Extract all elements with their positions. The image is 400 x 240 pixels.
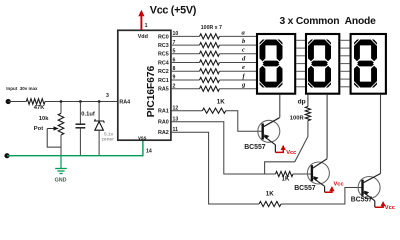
wire pot to ground bus: [60, 135, 62, 156]
svg-text:RC2: RC2: [158, 69, 169, 75]
svg-text:3: 3: [106, 93, 109, 99]
svg-text:Input 30v max: Input 30v max: [6, 86, 38, 91]
svg-text:RA4: RA4: [119, 100, 130, 106]
wire DS1 anode lead: [279, 95, 281, 118]
wire 1K to Q3 base: [281, 188, 363, 205]
wire RC3 to Rb: [171, 44, 200, 46]
svg-text:RC0: RC0: [158, 34, 169, 40]
display DS2 frame: [306, 34, 339, 94]
resistor Rf 100R: [200, 77, 220, 82]
zener diode 5.1v: [95, 119, 105, 123]
wire 100R down to RA0 net: [265, 121, 308, 174]
svg-text:RA5: RA5: [158, 87, 169, 93]
wire RC1 to Rf: [171, 79, 200, 81]
wire DS2 anode lead: [326, 95, 328, 159]
svg-text:RA2: RA2: [158, 130, 169, 136]
svg-text:RA1: RA1: [158, 109, 169, 115]
svg-text:1K: 1K: [217, 99, 225, 106]
svg-text:RA0: RA0: [158, 120, 169, 126]
wire wiper to bottom: [47, 129, 61, 148]
svg-text:Vcc: Vcc: [334, 182, 344, 188]
wire Q1 collector up to DS1: [278, 117, 281, 119]
svg-text:c: c: [242, 47, 245, 54]
resistor 1K (RA1 to Q1): [202, 108, 226, 113]
resistor Ra 100R: [200, 34, 220, 39]
svg-text:RC1: RC1: [158, 78, 169, 84]
svg-text:10k: 10k: [39, 116, 49, 122]
svg-text:PIC16F676: PIC16F676: [146, 65, 157, 117]
resistor Rb 100R: [200, 43, 220, 48]
svg-text:RC5: RC5: [158, 52, 169, 58]
svg-text:3 x Common Anode: 3 x Common Anode: [280, 16, 377, 27]
svg-text:0.1uf: 0.1uf: [81, 112, 95, 118]
svg-text:Pot: Pot: [34, 126, 43, 132]
wire Rb to display b: [220, 44, 257, 46]
display DS3 frame: [351, 34, 386, 94]
svg-text:BC557: BC557: [294, 185, 316, 192]
resistor 100R (dp): [305, 107, 310, 121]
svg-text:zener: zener: [102, 136, 115, 142]
svg-text:BC557: BC557: [351, 196, 373, 203]
svg-text:47K: 47K: [34, 105, 45, 111]
svg-text:5.1v: 5.1v: [104, 131, 114, 137]
resistor Re 100R: [200, 69, 220, 74]
svg-text:Vcc: Vcc: [286, 150, 296, 156]
wire RA2 down along bottom: [171, 132, 259, 204]
Vcc symbol Q3: [375, 201, 395, 211]
wire Rf to display f: [220, 79, 257, 81]
resistor 1K (RA0 to Q2): [276, 171, 294, 176]
wire RC0 to Ra: [171, 35, 200, 37]
wire RC5 to Rc: [171, 53, 200, 55]
wire Rd to display d: [220, 62, 257, 64]
svg-text:Vcc: Vcc: [385, 205, 395, 211]
IC U1 PIC16F676 body: [118, 30, 171, 140]
wire input to 47K: [8, 101, 26, 103]
potentiometer 10k body: [58, 113, 64, 135]
wire Ra to display a: [220, 35, 257, 37]
resistor Rd 100R: [200, 60, 220, 65]
transistor Q3 BC557: [358, 174, 380, 201]
node zener junction: [98, 100, 101, 103]
wire Rg to display g: [220, 88, 257, 90]
svg-text:Vdd: Vdd: [138, 34, 148, 40]
svg-text:Vcc (+5V): Vcc (+5V): [150, 5, 197, 17]
svg-text:RC4: RC4: [158, 60, 169, 66]
display DS1 frame: [257, 34, 295, 94]
svg-text:100R: 100R: [290, 116, 305, 122]
wire Rc to display c: [220, 53, 257, 55]
svg-text:e: e: [242, 64, 245, 71]
svg-text:1K: 1K: [282, 175, 290, 182]
wire zener to ground bus: [98, 130, 100, 156]
svg-text:g: g: [241, 82, 246, 89]
Vcc symbol Q2: [325, 182, 344, 193]
wire capacitor to ground bus: [79, 128, 81, 156]
svg-text:100R x 7: 100R x 7: [201, 25, 222, 31]
ground bus wire (green): [7, 140, 143, 156]
svg-text:dp: dp: [298, 99, 306, 106]
node pot junction: [60, 100, 63, 103]
svg-text:14: 14: [146, 148, 152, 154]
potentiometer wiper arrow: [47, 128, 54, 130]
resistor 1K (RA2 to Q3): [259, 201, 281, 206]
svg-text:GND: GND: [55, 178, 67, 184]
wire RC2 to Re: [171, 70, 200, 72]
wire RC4 to Rd: [171, 62, 200, 64]
display DS2 digit 8: [308, 39, 332, 88]
svg-text:BC557: BC557: [244, 144, 266, 151]
wire RA1 to 1K: [171, 110, 202, 112]
wire 47K to RA4: [45, 101, 118, 103]
svg-text:vss: vss: [138, 135, 147, 141]
wire down to capacitor: [79, 102, 81, 125]
wire down to zener: [98, 102, 100, 122]
Vcc symbol Q1: [275, 145, 296, 156]
wire down to pot: [60, 102, 62, 114]
wire Q2 emitter down: [324, 186, 326, 192]
transistor Q1 BC557: [258, 118, 280, 145]
wire DS2 dp lead: [307, 95, 309, 107]
wire RA5 to Rg: [171, 88, 200, 90]
node cap junction: [79, 100, 82, 103]
wire DS3 anode lead: [380, 95, 382, 174]
Vcc (+5V) supply arrow: [138, 10, 144, 30]
ground: [55, 156, 67, 184]
resistor Rc 100R: [200, 51, 220, 56]
svg-text:1: 1: [145, 23, 148, 29]
resistor 47K: [26, 99, 45, 105]
wire 1K to Q1 base: [226, 111, 263, 132]
resistor Rg 100R: [200, 86, 220, 91]
display DS1 digit 8: [259, 39, 283, 88]
transistor Q2 BC557: [307, 159, 329, 187]
segment bus DS1-DS2: [296, 40, 305, 87]
segment bus DS2-DS3: [340, 40, 349, 87]
capacitor 0.1uf: [76, 123, 86, 125]
ground bus terminal: [4, 153, 9, 158]
wire Q3 emitter down: [374, 201, 376, 207]
display DS3 digit 8: [354, 39, 378, 88]
wire Re to display e: [220, 70, 257, 72]
svg-text:1K: 1K: [266, 190, 274, 197]
wire Q1 emitter down: [274, 145, 276, 153]
wire RA0 down and to 1K: [171, 122, 276, 174]
input terminal: [6, 99, 11, 104]
wire 1K to Q2 base: [293, 173, 312, 175]
svg-text:RC3: RC3: [158, 43, 169, 49]
